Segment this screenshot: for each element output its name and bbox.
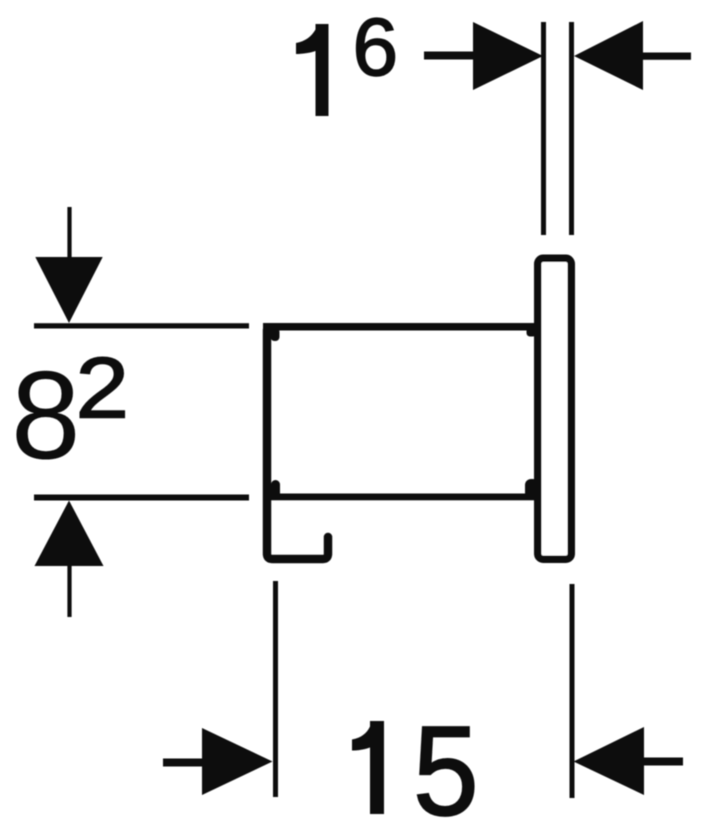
svg-text:6: 6 <box>353 2 399 93</box>
svg-text:5: 5 <box>413 700 479 830</box>
svg-text:2: 2 <box>76 340 130 436</box>
svg-text:8: 8 <box>11 347 81 486</box>
